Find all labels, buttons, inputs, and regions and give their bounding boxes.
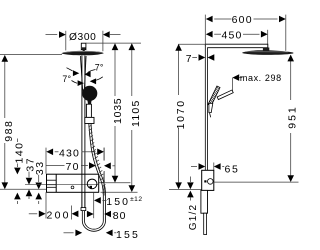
dim 450: left arrow (left): [206, 31, 213, 38]
shower pipe (front view): [81, 56, 83, 175]
dim 600: line: [214, 18, 231, 20]
dim 33: bottom arrow (up): [35, 193, 42, 200]
dim Ø300: line left segment: [46, 34, 58, 36]
svg-text:7°: 7°: [62, 74, 71, 84]
dim 70: opposing arrow (left at ext line): [104, 163, 111, 170]
svg-text:7°: 7°: [95, 63, 104, 73]
pipe tilt line right (7 deg): [84, 56, 86, 95]
hand shower holder (side view): [209, 103, 213, 112]
svg-text:430: 430: [59, 148, 80, 160]
svg-text:600: 600: [232, 14, 253, 26]
shower pipe front line (side view): [204, 44, 206, 170]
dim 37: extension line: [28, 172, 30, 178]
dim 600: right extension line: [285, 15, 287, 51]
dim 1035: top arrow (up): [112, 43, 119, 50]
dim 33: bottom tail: [38, 201, 40, 204]
7deg arrow pair upper: right arrow: [84, 71, 90, 77]
pipe through valve: [81, 174, 83, 192]
dim 988: top arrow (up): [2, 55, 9, 62]
ref line: valve bottom level right (1105): [101, 191, 138, 193]
dim 80: line: [113, 213, 115, 215]
dim 70: line: [46, 165, 65, 167]
hand shower hose (front view): [85, 123, 104, 229]
dim 80: right arrow (left): [104, 211, 111, 218]
7deg leader lower right: [96, 77, 103, 80]
overhead shower ball joint: [81, 43, 86, 49]
dim 988: bottom arrow (down): [2, 182, 9, 189]
svg-text:33: 33: [34, 160, 46, 175]
dim max298: leader tail: [239, 77, 242, 79]
7deg leader upper left: [67, 68, 73, 71]
hand shower head (side view): [217, 90, 233, 100]
valve midline extension left: [25, 184, 47, 186]
dim 951: line: [290, 55, 292, 100]
svg-text:80: 80: [113, 210, 127, 222]
dim 200: line left tail: [29, 213, 37, 215]
dim 150: line: [102, 199, 106, 201]
dim 140: top arrow (down at valve top): [14, 168, 21, 175]
hand shower handle (front view): [86, 104, 91, 117]
dim 450: line: [214, 33, 221, 35]
dim 951: top arrow (up): [287, 55, 294, 62]
dim 33: top arrow (down): [35, 183, 42, 190]
valve body midline: [56, 184, 98, 186]
svg-text:155: 155: [116, 229, 140, 241]
dim 430: right arrow (right): [97, 149, 104, 156]
dim 600: left arrow (left): [206, 16, 213, 23]
ref line: supply connection level (side view): [169, 188, 202, 190]
dim Ø300: left arrow (right at ext line): [59, 31, 66, 38]
dim 33: extension line: [38, 175, 40, 182]
dim 140: top arrow tail: [16, 166, 18, 167]
svg-text:1035: 1035: [112, 98, 124, 124]
dim 430: line: [55, 151, 59, 153]
dim 1105: line: [131, 44, 133, 96]
dim 140: extension line: [16, 164, 18, 167]
hand shower head (front view): [82, 86, 97, 101]
pipe tilt line left (7 deg): [80, 56, 83, 95]
dim 200: left arrow (right): [39, 211, 46, 218]
valve handle grip lines: [47, 179, 57, 181]
dim 1070: line: [178, 45, 180, 95]
dim 65: left arrow (right): [199, 163, 206, 170]
svg-text:140: 140: [13, 141, 25, 163]
thermostat valve (side view): [202, 170, 214, 190]
dim 1105: bottom arrow (down): [129, 185, 136, 192]
svg-text:G1/2: G1/2: [188, 204, 199, 230]
svg-text:max. 298: max. 298: [240, 73, 282, 83]
svg-text:7: 7: [186, 54, 192, 65]
7deg leader upper right: [88, 70, 96, 73]
valve handle divider: [55, 174, 57, 192]
dim 37: top arrow (down): [26, 178, 33, 185]
dim 1105: top arrow (up): [129, 43, 136, 50]
dim max298: arrow (left): [232, 74, 239, 81]
dim 150: arrow (left): [94, 197, 101, 204]
dim 155: left tail: [64, 232, 74, 234]
dim 600: right arrow (right): [279, 16, 286, 23]
G1/2: upper arrow (down): [187, 182, 194, 189]
dim 450: right extension line: [267, 30, 269, 48]
svg-text:450: 450: [221, 29, 242, 41]
svg-text:1105: 1105: [130, 99, 142, 127]
overhead shower head (side view): [242, 50, 293, 55]
dim 450: right arrow (right): [261, 31, 268, 38]
dim 1070: top arrow (up): [175, 44, 182, 51]
dim max298: extension line: [231, 78, 233, 92]
valve small port dot: [71, 186, 74, 189]
svg-text:150: 150: [106, 196, 130, 208]
dim 37: bottom tail: [28, 196, 30, 199]
shower arm (side view): [205, 44, 267, 48]
thermostat valve body (front view): [47, 174, 99, 192]
dim Ø300: right extension line: [102, 31, 104, 52]
arm ball joint (side view): [263, 48, 269, 52]
dim 65: tail: [222, 166, 224, 168]
dim 7: leader: [192, 57, 197, 59]
7deg arrow pair upper: left arrow: [73, 70, 79, 76]
dim Ø300: left extension line: [65, 31, 67, 51]
dim 7: right arrow (left): [208, 54, 215, 61]
ext line hose anchor x=93.7: [93, 192, 95, 218]
svg-text:200: 200: [47, 209, 71, 221]
dim Ø300: right arrow (left at ext line): [103, 31, 110, 38]
ref line: top of joint level (front view): [86, 42, 141, 44]
dim Ø300: line right segment: [110, 34, 121, 36]
valve select button: [90, 186, 93, 189]
dim 200: right arrow (left): [72, 211, 79, 218]
dim 37: bottom arrow (up): [26, 189, 33, 196]
wall line (side view): [207, 46, 209, 170]
svg-text:951: 951: [286, 105, 298, 129]
dim 951: bottom arrow (down): [287, 175, 294, 182]
hose connector cap (front view): [81, 208, 86, 211]
hose tail (side view): [204, 213, 207, 234]
svg-text:70: 70: [66, 161, 80, 173]
dim 70: right arrow (right at hose): [89, 162, 96, 169]
dim 155: left arrow (right): [75, 230, 82, 237]
svg-text:65: 65: [225, 163, 240, 175]
outlet stub below valve (side view): [201, 190, 208, 213]
7deg arrow pair lower: left arrow: [78, 80, 84, 86]
G1/2: lower arrow (up): [187, 191, 194, 198]
svg-text:1070: 1070: [175, 99, 187, 129]
head top highlight: [246, 51, 288, 53]
7deg leader lower left: [72, 81, 78, 84]
svg-text:Ø300: Ø300: [69, 32, 96, 43]
ref line: supply connection level (front view): [0, 188, 47, 190]
dim 70: opposing arrow tail: [112, 165, 115, 167]
hand shower holder (front view): [85, 117, 94, 123]
hand shower handle (side, hatched): [208, 86, 220, 106]
dim 988: vertical dimension line: [4, 60, 6, 118]
dim 430: left arrow (left): [46, 149, 53, 156]
hose ribbing hatch: [89, 125, 92, 127]
dim 155: right arrow (left): [106, 230, 113, 237]
dim 65: extension line valve face: [213, 163, 215, 171]
dim 1035: top reference and line: [114, 44, 116, 96]
ref line: overhead shower underside level (front view): [0, 54, 62, 56]
dim 1070: bottom arrow (down): [175, 182, 182, 189]
dim 430: left extension line: [45, 148, 47, 174]
overhead shower head (front view): [61, 51, 104, 55]
7deg arrow pair lower: right arrow: [90, 78, 96, 84]
svg-text:988: 988: [3, 120, 15, 142]
dim 140: bottom arrow (up at valve bottom): [14, 193, 21, 200]
ext line x=71.5 below valve: [71, 206, 73, 220]
valve button (side view): [208, 179, 214, 185]
ref line: valve centre level (side view): [214, 181, 299, 183]
dim 65: left tail: [191, 166, 197, 168]
ext line x=104.2 hose axis: [103, 148, 105, 161]
pipe stub below valve (front view): [81, 192, 83, 207]
ref line: head top level (side view): [178, 43, 205, 45]
dim 1035: bottom arrow (down): [112, 176, 119, 183]
dim 80: left arrow (right): [87, 211, 94, 218]
dim 430: right extension line: [103, 148, 105, 161]
dim 155: line: [114, 232, 116, 234]
wall line upper extension: [204, 15, 206, 46]
ref line: valve centre level right (1035): [99, 182, 131, 184]
dim 65: right arrow (left): [214, 163, 221, 170]
ext line x=46 below valve: [45, 192, 47, 218]
dim 140: bottom tail: [16, 201, 18, 204]
svg-text:±12: ±12: [130, 196, 142, 203]
dim 7: left arrow (right): [199, 54, 206, 61]
